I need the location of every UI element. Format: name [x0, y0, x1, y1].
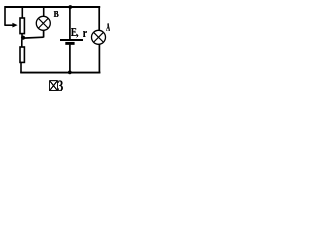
label E: [71, 28, 77, 36]
wire bottom horizontal: [20, 72, 100, 74]
resistor R1 (rheostat body): [20, 18, 24, 34]
wire rheostat wiper arm: [4, 24, 12, 26]
lamp A cross: [94, 32, 104, 42]
battery E short thick plate: [65, 42, 74, 45]
node junction dot (R1/R2/lamp B): [21, 36, 25, 40]
wire battery bottom stub: [69, 45, 71, 73]
wire lamp A top stub: [98, 6, 100, 30]
battery E long plate: [60, 39, 83, 41]
wire junction to lamp B bottom: [23, 36, 44, 39]
wire top horizontal: [5, 6, 101, 8]
node battery top junction dot: [68, 5, 72, 9]
wire battery top stub: [69, 7, 71, 39]
arrowhead of rheostat wiper: [12, 23, 17, 28]
label figure caption 3: [58, 80, 63, 91]
lamp A symbol circle: [92, 30, 106, 44]
wire lamp B top stub: [43, 7, 45, 17]
label r: [83, 31, 87, 37]
wire bottom-left corner up stub: [20, 63, 22, 73]
lamp B cross: [38, 18, 48, 28]
label comma: [76, 34, 79, 38]
wire R2 top stub: [21, 39, 23, 47]
resistor R2: [20, 47, 24, 62]
wire R1 bottom stub: [21, 34, 23, 37]
label figure caption tu (drawn glyph): [49, 80, 58, 91]
lamp B symbol circle: [36, 16, 50, 30]
wire lamp B bottom stub: [43, 30, 45, 38]
node battery bottom junction dot: [68, 71, 72, 75]
label B: [53, 11, 59, 17]
wire left vertical: [4, 6, 6, 25]
wire lamp A bottom stub: [98, 44, 100, 73]
wire R1 top stub: [21, 7, 23, 18]
label A: [106, 23, 110, 31]
